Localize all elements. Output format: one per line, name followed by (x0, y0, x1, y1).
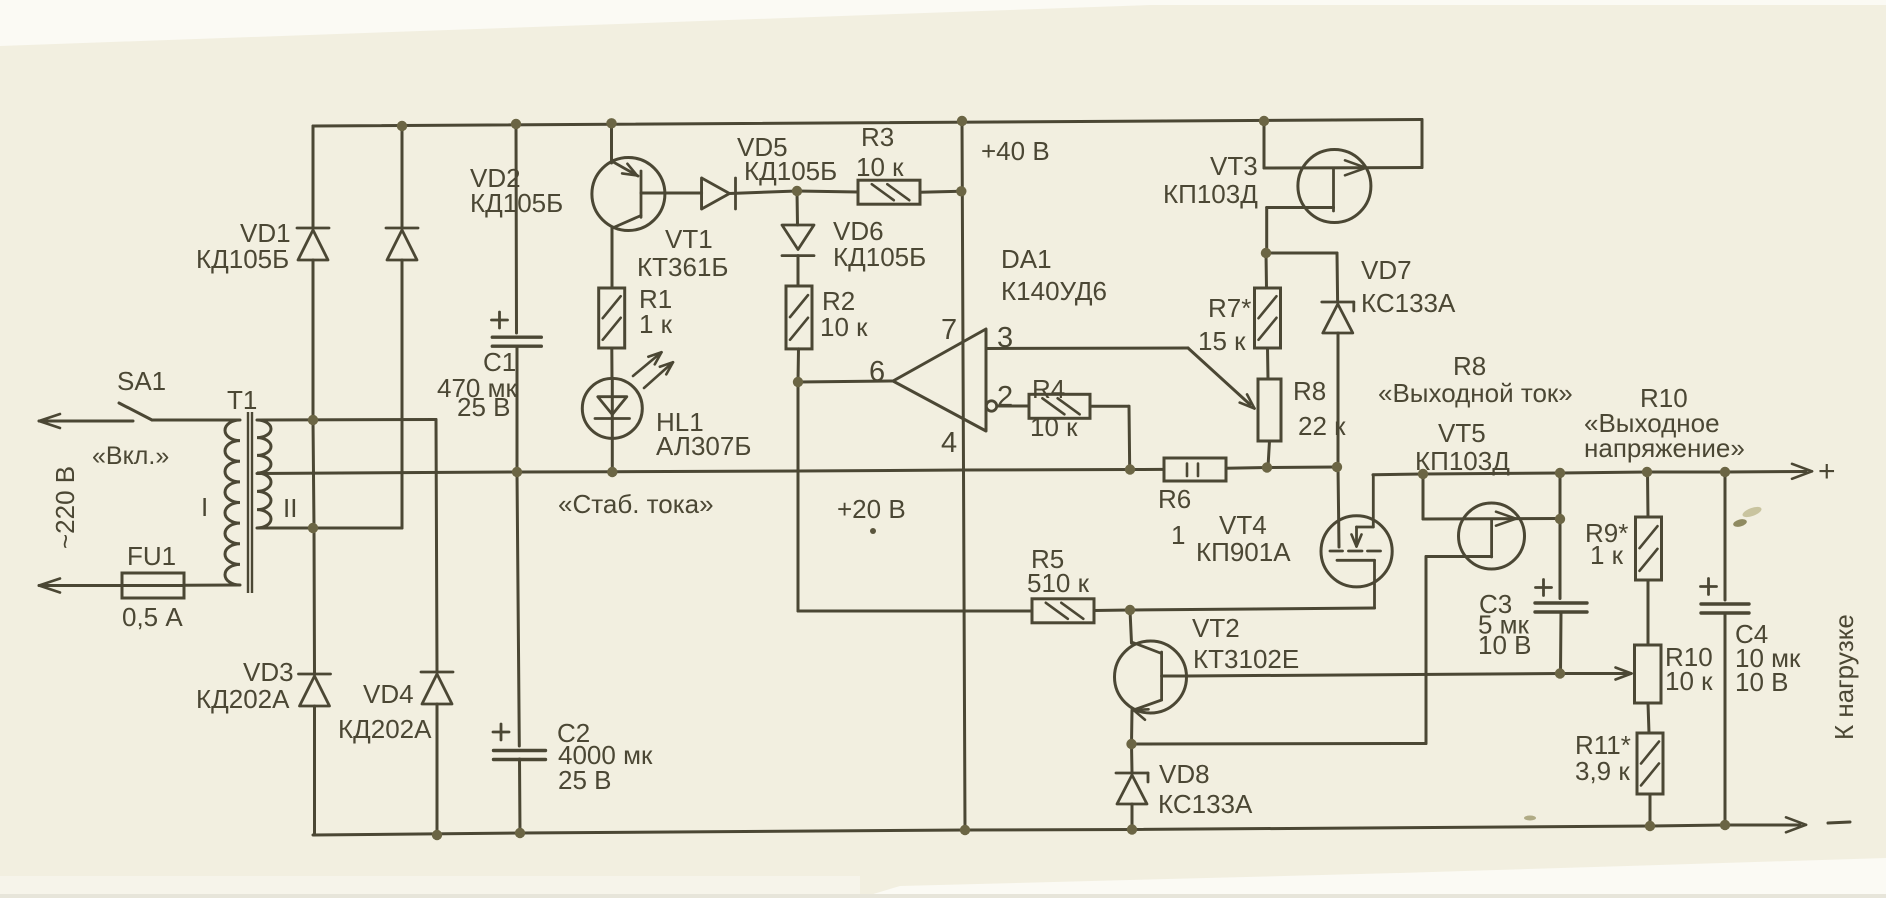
svg-text:25 В: 25 В (457, 392, 511, 422)
svg-text:7: 7 (941, 314, 957, 346)
svg-text:КД202А: КД202А (338, 714, 432, 744)
svg-text:VD4: VD4 (363, 679, 414, 709)
svg-text:4: 4 (941, 427, 957, 459)
svg-text:КС133А: КС133А (1361, 288, 1456, 318)
svg-text:VT3: VT3 (1210, 151, 1258, 181)
svg-text:КС133А: КС133А (1158, 789, 1253, 819)
svg-text:1 к: 1 к (639, 309, 673, 339)
svg-text:1 к: 1 к (1590, 540, 1624, 570)
svg-text:КП103Д: КП103Д (1415, 446, 1510, 476)
svg-text:КД105Б: КД105Б (744, 156, 837, 186)
svg-text:2: 2 (997, 381, 1013, 413)
svg-text:15 к: 15 к (1198, 326, 1246, 356)
svg-text:VD7: VD7 (1361, 255, 1412, 285)
svg-text:10 В: 10 В (1478, 630, 1532, 660)
svg-text:«Вкл.»: «Вкл.» (92, 442, 169, 470)
svg-text:R7*: R7* (1208, 293, 1251, 323)
svg-text:R3: R3 (861, 122, 894, 152)
svg-text:«Выходной ток»: «Выходной ток» (1378, 378, 1573, 408)
svg-text:1: 1 (1171, 520, 1185, 550)
svg-text:+: + (1818, 455, 1836, 488)
svg-text:КП901А: КП901А (1196, 537, 1291, 567)
svg-text:10 к: 10 к (1665, 666, 1713, 696)
svg-text:КД105Б: КД105Б (833, 242, 926, 272)
svg-text:R8: R8 (1293, 376, 1326, 406)
svg-text:VT5: VT5 (1438, 418, 1486, 448)
svg-text:КД105Б: КД105Б (196, 244, 289, 274)
svg-text:DA1: DA1 (1001, 244, 1052, 274)
svg-text:R6: R6 (1158, 484, 1191, 514)
svg-text:VD3: VD3 (243, 657, 294, 687)
svg-text:КТ3102Е: КТ3102Е (1193, 644, 1299, 674)
svg-text:25 В: 25 В (558, 765, 612, 795)
svg-text:VT1: VT1 (665, 224, 713, 254)
svg-text:I: I (201, 492, 208, 522)
svg-text:«Стаб. тока»: «Стаб. тока» (558, 489, 714, 519)
svg-text:КП103Д: КП103Д (1163, 179, 1258, 209)
svg-text:КД202А: КД202А (196, 684, 290, 714)
svg-text:напряжение»: напряжение» (1584, 433, 1745, 463)
svg-text:0,5 А: 0,5 А (122, 602, 183, 632)
svg-text:VD8: VD8 (1159, 759, 1210, 789)
svg-text:R8: R8 (1453, 351, 1486, 381)
svg-text:10 к: 10 к (820, 312, 868, 342)
svg-text:6: 6 (869, 356, 885, 388)
svg-text:АЛ307Б: АЛ307Б (656, 431, 751, 461)
svg-text:T1: T1 (227, 385, 257, 415)
svg-text:R4: R4 (1032, 374, 1065, 404)
svg-text:510 к: 510 к (1027, 568, 1090, 598)
svg-text:К140УД6: К140УД6 (1001, 276, 1107, 306)
svg-text:VT2: VT2 (1192, 613, 1240, 643)
svg-text:10 В: 10 В (1735, 667, 1789, 697)
svg-text:3,9 к: 3,9 к (1575, 756, 1630, 786)
svg-text:VT4: VT4 (1219, 510, 1267, 540)
svg-text:КТ361Б: КТ361Б (637, 252, 728, 282)
svg-text:~220 В: ~220 В (50, 466, 80, 549)
svg-text:10 к: 10 к (1030, 412, 1078, 442)
svg-text:II: II (283, 493, 297, 523)
svg-text:+20 В: +20 В (837, 494, 906, 524)
svg-text:+40 В: +40 В (981, 136, 1050, 166)
svg-text:10 к: 10 к (856, 152, 904, 182)
svg-text:К нагрузке: К нагрузке (1829, 614, 1859, 740)
svg-text:SA1: SA1 (117, 366, 166, 396)
svg-text:FU1: FU1 (127, 541, 176, 571)
